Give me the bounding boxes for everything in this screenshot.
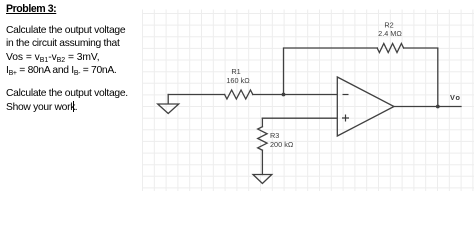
ground	[158, 95, 179, 114]
wire	[404, 48, 438, 107]
resistor R1	[225, 90, 253, 99]
wire	[394, 106, 461, 108]
op-amp U1	[337, 77, 394, 136]
wire	[168, 94, 224, 96]
wire	[261, 118, 263, 127]
node junction dot	[436, 105, 440, 109]
svg-text:R3: R3	[270, 131, 279, 140]
svg-text:160 kΩ: 160 kΩ	[226, 76, 250, 85]
resistor R2	[377, 44, 403, 53]
svg-text:V: V	[450, 93, 455, 102]
wire	[262, 117, 337, 119]
svg-text:R1: R1	[231, 67, 240, 76]
wire	[284, 48, 378, 95]
op-amp plus pin glyph	[342, 115, 349, 122]
op-amp minus pin glyph	[343, 94, 349, 96]
svg-text:2.4 MΩ: 2.4 MΩ	[378, 29, 402, 38]
resistor R3	[258, 127, 267, 151]
ground	[253, 175, 272, 184]
svg-text:o: o	[456, 93, 461, 102]
node junction dot	[282, 93, 286, 97]
svg-text:200 kΩ: 200 kΩ	[270, 140, 294, 149]
wire	[253, 94, 337, 96]
wire	[261, 150, 263, 174]
